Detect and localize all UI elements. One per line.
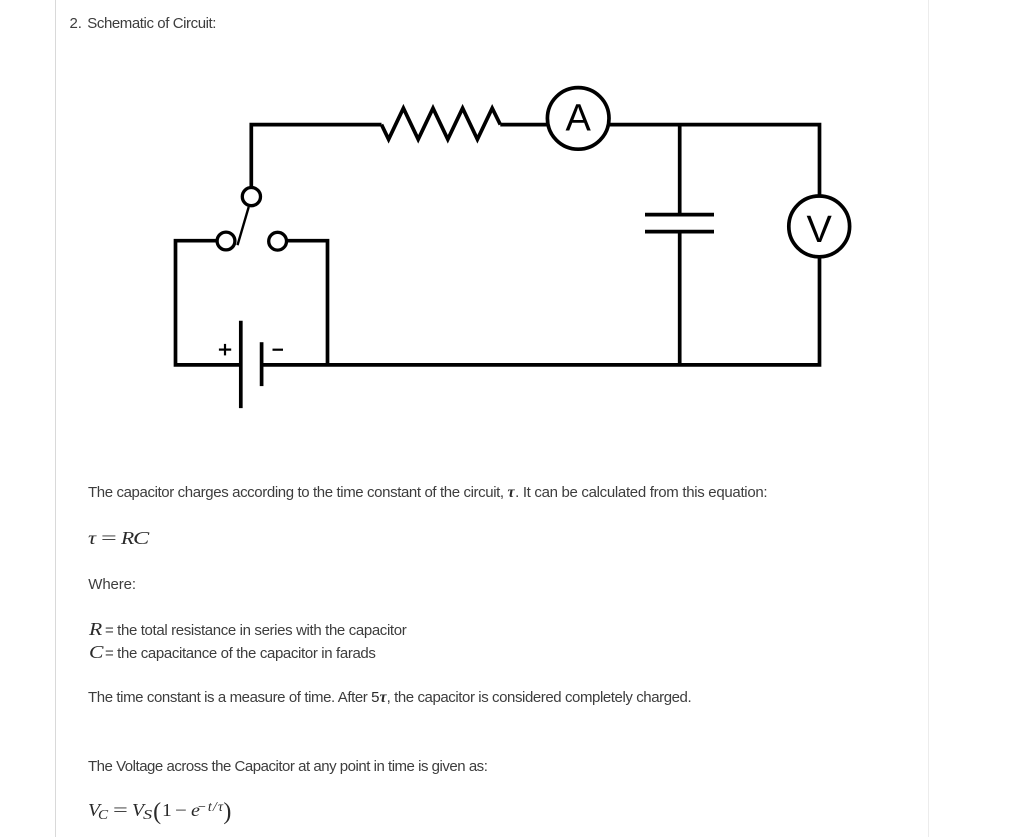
definition: R [89,620,407,640]
resistor R zigzag [382,108,501,139]
circuit schematic SVG [0,0,1024,470]
paragraph: capacitor charges according to time constant [88,484,767,502]
battery label + [219,344,231,356]
voltmeter circle [789,196,850,257]
definition: C [89,643,376,663]
ammeter circle [547,88,609,150]
battery minus (short) plate [260,342,264,386]
wire: resistor to ammeter [500,123,550,127]
wire: ammeter to top-right corner, down to voltmeter top [606,125,820,198]
wire: voltmeter bottom to bottom-right corner, left along bottom rail to battery minus plate [262,255,820,365]
wire: top rail junction down to capacitor top plate [678,125,682,215]
battery label minus [273,349,284,351]
wire: switch right contact to the right, down to bottom rail [288,241,328,365]
formula: tau = RC [88,529,145,547]
right page border [928,0,929,837]
formula: Vc = Vs(1 - e^(-t/tau)) [88,799,232,825]
switch right contact [269,232,287,250]
paragraph: time constant is a measure of time [88,689,691,707]
heading number: 2. [70,15,82,33]
switch top contact [242,188,260,206]
svg-text:A: A [566,98,592,140]
switch left contact [217,232,235,250]
paragraph: voltage across the capacitor [88,758,487,776]
wire: battery plus plate left along bottom rail, up left side, to switch left contact [176,241,241,365]
capacitor C bottom plate [645,230,714,234]
left page border [55,0,56,837]
battery plus (long) plate [239,321,243,408]
heading: Schematic of Circuit: [87,15,216,33]
switch arm [238,207,249,245]
label: Where: [88,576,136,594]
wire: capacitor bottom plate down to bottom rail [678,232,682,365]
svg-text:V: V [807,209,833,251]
capacitor C top plate [645,213,714,217]
wire: switch top contact up to top-left corner and right to resistor [251,125,381,187]
